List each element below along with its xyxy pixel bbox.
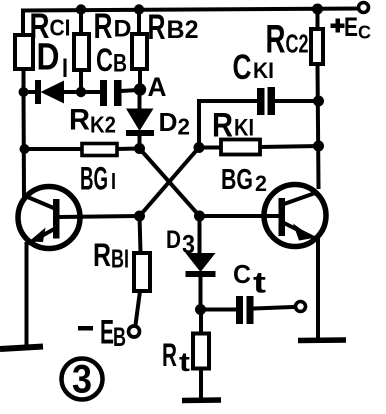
wire Rt bottom lead bbox=[199, 369, 203, 399]
label +EC plus sign bbox=[331, 19, 345, 33]
node junction RK1 right bbox=[313, 141, 324, 152]
figure number 3 circle bbox=[62, 359, 103, 400]
node junction D3-Ct-Rt bbox=[195, 304, 206, 315]
svg-text:I: I bbox=[111, 168, 116, 194]
svg-text:BG: BG bbox=[80, 161, 108, 197]
wire RC1 top lead bbox=[21, 11, 25, 36]
svg-text:R: R bbox=[148, 8, 166, 47]
svg-text:R: R bbox=[162, 337, 177, 373]
ground BG2 emitter bbox=[298, 337, 346, 343]
wire RC2 top lead bbox=[316, 9, 320, 29]
svg-text:R: R bbox=[94, 7, 113, 46]
wire D1 right lead bbox=[63, 90, 81, 94]
svg-text:D: D bbox=[37, 37, 60, 79]
svg-text:I: I bbox=[62, 53, 68, 83]
node junction BG2 base bbox=[194, 211, 205, 222]
svg-text:B: B bbox=[113, 322, 126, 352]
svg-text:R: R bbox=[212, 107, 233, 145]
wire top +EC rail bbox=[23, 9, 357, 11]
node junction rail-RC2 bbox=[312, 4, 323, 15]
node junction CK1 right bbox=[313, 96, 324, 107]
resistor RC1 bbox=[15, 35, 33, 69]
svg-text:2: 2 bbox=[178, 114, 191, 140]
ground Rt bbox=[182, 397, 221, 403]
svg-text:A: A bbox=[148, 72, 167, 102]
wire RK1 left lead bbox=[199, 146, 220, 150]
node junction CK1-RK1 left bbox=[194, 142, 205, 153]
diode D1 bbox=[35, 80, 64, 104]
node junction BG1 base bbox=[134, 211, 145, 222]
terminal +EC circle bbox=[359, 3, 369, 13]
svg-text:B: B bbox=[113, 50, 127, 78]
svg-text:R: R bbox=[266, 18, 286, 62]
ground BG1 emitter bbox=[0, 347, 43, 350]
wire RK2 left lead bbox=[24, 147, 81, 151]
wire BG1 emitter to ground bbox=[25, 244, 29, 347]
wire RD bottom lead bbox=[79, 70, 83, 92]
diode D2 bbox=[126, 109, 154, 137]
node junction RK2 left bbox=[20, 144, 30, 154]
resistor Rt bbox=[193, 334, 209, 369]
capacitor Ct bbox=[236, 296, 254, 324]
transistor BG2 bbox=[264, 185, 326, 247]
svg-text:R: R bbox=[93, 237, 111, 273]
svg-text:D: D bbox=[159, 107, 178, 137]
terminal -EB circle bbox=[129, 326, 140, 337]
wire CK1 node vertical bbox=[197, 101, 201, 148]
node junction D2-RK2 bbox=[134, 143, 145, 154]
svg-text:KI: KI bbox=[253, 58, 274, 83]
node junction RC1-D1 bbox=[19, 87, 29, 97]
wire RB1 bottom lead bbox=[136, 291, 141, 325]
svg-text:C: C bbox=[96, 42, 113, 78]
wire Ct left lead bbox=[201, 308, 237, 312]
svg-text:K2: K2 bbox=[90, 112, 116, 138]
wire RD top lead bbox=[79, 10, 83, 34]
node junction rail-RB2 bbox=[134, 4, 144, 14]
node junction D1-RD-CB bbox=[76, 87, 86, 97]
svg-text:D: D bbox=[114, 16, 132, 43]
wire node A to D2 anode bbox=[138, 90, 142, 109]
svg-text:3: 3 bbox=[72, 358, 92, 402]
wire CK1 right lead bbox=[275, 99, 318, 103]
wire D1 left lead bbox=[23, 90, 36, 94]
resistor RD bbox=[74, 34, 89, 70]
wire RB2 bottom lead bbox=[138, 70, 142, 89]
resistor RK2 bbox=[82, 144, 117, 156]
resistor RC2 bbox=[311, 29, 323, 64]
wire Rt top lead bbox=[199, 310, 203, 334]
wire CK1 left lead bbox=[199, 99, 257, 103]
wire RC2 bottom lead to BG2 collector bbox=[318, 64, 319, 187]
svg-text:C: C bbox=[233, 259, 251, 289]
svg-text:KI: KI bbox=[234, 115, 254, 142]
terminal Ct output circle bbox=[296, 302, 306, 312]
node A junction bbox=[134, 83, 146, 95]
wire Ct right lead bbox=[254, 307, 295, 309]
svg-text:BG: BG bbox=[221, 164, 253, 196]
wire BG1 base lead bbox=[60, 216, 139, 217]
wire CB right lead bbox=[120, 90, 139, 91]
svg-text:C: C bbox=[233, 48, 252, 87]
wire D2 cathode lead bbox=[138, 134, 142, 148]
svg-text:t: t bbox=[179, 347, 190, 377]
svg-text:t: t bbox=[253, 267, 266, 300]
wire D3 anode lead bbox=[198, 216, 202, 254]
wire D3 cathode lead bbox=[199, 276, 203, 309]
capacitor CK1 bbox=[257, 87, 275, 115]
svg-text:3: 3 bbox=[182, 229, 195, 259]
wire BG2 emitter to ground bbox=[316, 240, 320, 339]
capacitor CB bbox=[100, 80, 122, 106]
wire RK1 right lead bbox=[260, 146, 318, 147]
node junction rail-RD bbox=[76, 4, 86, 14]
wire RB1 top lead bbox=[140, 216, 141, 252]
resistor RB1 bbox=[134, 253, 150, 291]
svg-text:C2: C2 bbox=[286, 29, 309, 59]
svg-text:BI: BI bbox=[111, 244, 129, 274]
svg-text:2: 2 bbox=[255, 171, 267, 196]
svg-text:C: C bbox=[358, 23, 371, 43]
resistor RK1 bbox=[221, 140, 260, 155]
transistor BG1 bbox=[18, 187, 80, 249]
diode D3 bbox=[186, 253, 216, 277]
svg-text:R: R bbox=[69, 104, 90, 137]
wire BG1 collector column bbox=[22, 92, 27, 196]
wire RC1 bottom lead bbox=[22, 69, 26, 92]
label -EB minus sign bbox=[78, 326, 93, 331]
wire RK2 right lead bbox=[117, 147, 139, 152]
resistor RB2 bbox=[132, 34, 147, 69]
svg-text:E: E bbox=[100, 314, 114, 352]
wire CB left lead bbox=[81, 90, 100, 94]
wire RB2 top lead bbox=[137, 10, 141, 34]
wire cross diagonal CK1 node to BG1 base node bbox=[140, 148, 200, 217]
svg-text:B2: B2 bbox=[167, 16, 199, 44]
svg-text:E: E bbox=[344, 12, 358, 42]
svg-text:D: D bbox=[166, 226, 181, 254]
wire BG2 base lead bbox=[199, 214, 278, 218]
wire cross diagonal D2 node to BG2 base node bbox=[140, 149, 200, 217]
